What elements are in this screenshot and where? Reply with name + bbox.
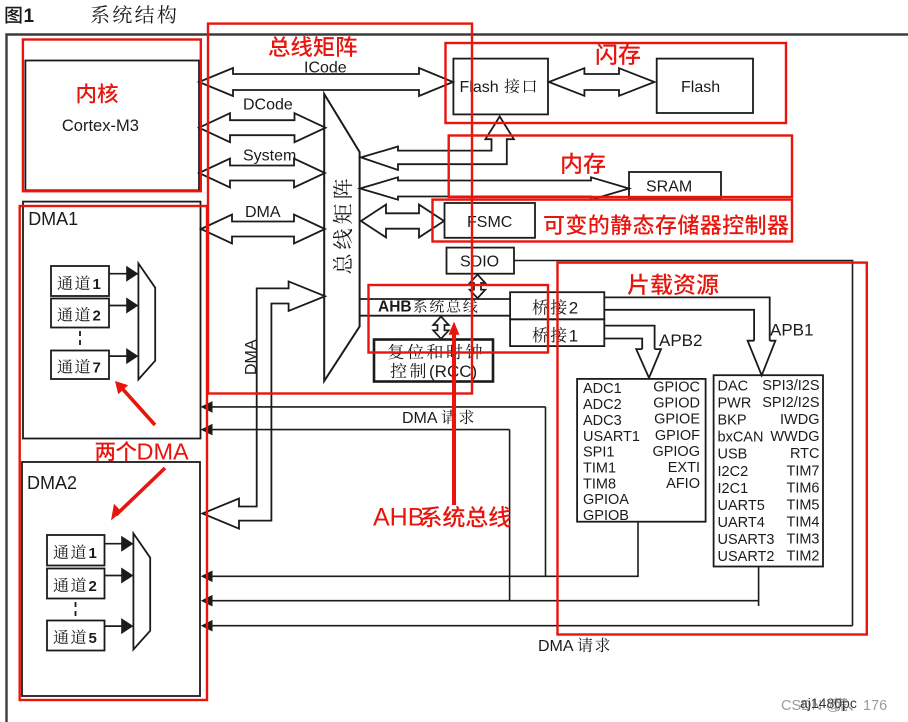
wire 通道2 to mux (DMA2) — [105, 575, 123, 577]
svg-text:TIM4: TIM4 — [786, 515, 819, 531]
svg-text:UART4: UART4 — [718, 515, 765, 531]
box 通道1 (DMA1) — [51, 266, 109, 296]
wire 通道1 to mux (DMA2) — [105, 543, 123, 545]
box APB2 peripherals — [577, 379, 706, 522]
svg-text:I2C1: I2C1 — [718, 481, 749, 497]
svg-text:TIM7: TIM7 — [786, 463, 819, 479]
svg-text:SPI1: SPI1 — [583, 445, 614, 461]
label 总线矩阵 (red) — [269, 36, 290, 57]
label 可变的静态存储器控制器 (red) — [544, 216, 564, 235]
svg-text:DAC: DAC — [718, 379, 749, 395]
AHB system bus bar — [360, 298, 510, 300]
connector matrix-Flash接口 (up arrow + left arrow) — [361, 117, 514, 171]
wire 通道7 to mux — [109, 355, 127, 357]
red arrow to DMA2 channels — [116, 468, 165, 515]
svg-text:TIM6: TIM6 — [786, 480, 819, 496]
svg-text:USART1: USART1 — [583, 429, 640, 445]
title 图1 — [6, 7, 22, 24]
annotation box 总线矩阵 (red) — [208, 24, 472, 394]
label 内核 (red) — [78, 83, 96, 103]
box DMA1 — [23, 202, 201, 439]
box SRAM — [629, 172, 721, 199]
svg-text:System: System — [243, 148, 296, 165]
red arrow AHB label to bus bar — [452, 331, 456, 505]
svg-text:EXTI: EXTI — [668, 460, 700, 476]
svg-text:TIM3: TIM3 — [786, 532, 819, 548]
svg-text:I2C2: I2C2 — [718, 464, 749, 480]
svg-text:GPIOB: GPIOB — [583, 508, 629, 524]
box 通道7 (DMA1) — [51, 351, 109, 380]
svg-text:DMA: DMA — [402, 410, 438, 427]
annotation box 片载资源 (red) — [558, 263, 867, 635]
svg-text:GPIOE: GPIOE — [654, 412, 700, 428]
svg-text:TIM8: TIM8 — [583, 476, 616, 492]
svg-text:5: 5 — [89, 630, 97, 647]
svg-text:TIM1: TIM1 — [583, 460, 616, 476]
label 内存 (red) — [562, 153, 581, 174]
box FSMC — [445, 203, 536, 238]
box 通道2 (DMA1) — [51, 299, 109, 328]
label 两个DMA (red) — [96, 443, 115, 462]
svg-text:APB2: APB2 — [659, 331, 702, 350]
svg-text:ADC2: ADC2 — [583, 397, 622, 413]
box DMA2 — [22, 462, 200, 696]
box APB1 peripherals — [714, 375, 823, 566]
svg-text:GPIOD: GPIOD — [653, 396, 700, 412]
bus arrow System — [199, 159, 325, 188]
svg-text:1: 1 — [24, 6, 35, 27]
svg-text:IWDG: IWDG — [780, 412, 819, 428]
svg-text:DCode: DCode — [243, 97, 293, 114]
svg-text:GPIOA: GPIOA — [583, 492, 629, 508]
bus arrow DCode — [199, 113, 326, 142]
bus arrow matrix-SRAM — [360, 177, 629, 199]
wire DMA request to DMA2 from SDIO — [211, 625, 853, 627]
svg-text:SRAM: SRAM — [646, 179, 692, 196]
bus arrow DMA — [201, 215, 325, 244]
dashed ellipsis between 通道2 and 通道5 — [75, 602, 77, 618]
wire SDIO right and down — [514, 261, 853, 626]
box 通道1 (DMA2) — [47, 535, 105, 566]
svg-text:GPIOG: GPIOG — [652, 444, 700, 460]
small double arrow SDIO-AHB bus — [470, 275, 486, 299]
wire 桥接1 to APB2 funnel — [604, 326, 654, 350]
svg-text:BKP: BKP — [718, 413, 747, 429]
box 桥接2 — [510, 292, 604, 319]
wire DMA request to DMA2 ch2 — [211, 600, 759, 602]
svg-text:ADC1: ADC1 — [583, 381, 622, 397]
label 闪存 (red) — [597, 44, 617, 65]
wire 通道5 to mux (DMA2) — [105, 625, 123, 627]
svg-text:aj1480pc: aj1480pc — [800, 695, 857, 711]
annotation box 内存 (red) — [449, 136, 792, 198]
red arrow to 通道7 — [120, 386, 155, 425]
svg-text:DMA: DMA — [538, 638, 574, 655]
svg-text:7: 7 — [93, 360, 101, 377]
annotation box 可变的静态存储器控制器 (red) — [433, 200, 793, 242]
svg-text:1: 1 — [93, 276, 101, 293]
label 片载资源 (red) — [628, 274, 648, 295]
svg-text:USART3: USART3 — [718, 532, 775, 548]
wire 桥接2 to APB1 funnel — [604, 297, 769, 340]
box Flash — [657, 59, 753, 113]
box Cortex-M3 core — [25, 61, 199, 191]
annotation box 内核 (red) — [23, 40, 201, 192]
svg-text:GPIOC: GPIOC — [653, 380, 700, 396]
svg-text:AFIO: AFIO — [666, 476, 700, 492]
svg-text:TIM5: TIM5 — [786, 497, 819, 513]
svg-text:ADC3: ADC3 — [583, 413, 622, 429]
svg-text:APB1: APB1 — [770, 321, 813, 340]
box 通道5 (DMA2) — [47, 621, 105, 651]
svg-text:DMA: DMA — [137, 438, 190, 464]
box Flash 接口 — [453, 59, 548, 115]
svg-text:2: 2 — [93, 308, 101, 325]
svg-text:2: 2 — [569, 299, 578, 318]
svg-text:UART5: UART5 — [718, 498, 765, 514]
box 复位和时钟控制(RCC) — [374, 340, 493, 382]
elbow pipe arrow matrix-DMA2 — [203, 281, 326, 528]
wire 通道1 to mux — [109, 273, 127, 275]
svg-text:bxCAN: bxCAN — [718, 430, 764, 446]
box 桥接1 — [510, 319, 604, 346]
svg-text:USB: USB — [718, 447, 748, 463]
mux trapezoid DMA1 — [138, 263, 155, 379]
small double arrow AHB-RCC — [433, 317, 449, 339]
svg-text:Cortex-M3: Cortex-M3 — [62, 117, 139, 135]
wire 通道2 to mux — [109, 305, 127, 307]
annotation box AHB (red) — [369, 285, 549, 353]
svg-text:DMA: DMA — [245, 204, 281, 221]
wire DMA request 1 (APB2 periph down) — [637, 522, 639, 577]
svg-text:SPI3/I2S: SPI3/I2S — [762, 378, 819, 394]
svg-text:SDIO: SDIO — [460, 254, 499, 271]
wire DMA request 2 (APB1 periph down) — [758, 567, 760, 607]
box SDIO — [447, 248, 515, 274]
annotation box around DMA1+DMA2 (red) — [20, 206, 207, 700]
svg-text:WWDG: WWDG — [770, 429, 819, 445]
dashed ellipsis between 通道2 and 通道7 — [79, 331, 81, 348]
bus arrow matrix-FSMC — [361, 205, 444, 238]
svg-text:1: 1 — [569, 326, 578, 345]
svg-text:GPIOF: GPIOF — [655, 428, 700, 444]
svg-text:PWR: PWR — [718, 396, 752, 412]
svg-text:2: 2 — [89, 578, 97, 595]
wire DMA request to DMA2 ch1 — [211, 575, 638, 577]
bus arrow Flash接口-Flash — [549, 68, 655, 96]
bus arrow ICode — [199, 68, 453, 96]
mux trapezoid DMA2 — [133, 533, 150, 649]
title 系统结构 — [91, 5, 108, 23]
svg-text:1: 1 — [89, 545, 97, 562]
svg-text:AHB: AHB — [378, 299, 412, 316]
box 通道2 (DMA2) — [47, 569, 105, 599]
bus matrix trapezoid 总线矩阵 — [324, 94, 359, 381]
svg-text:USART2: USART2 — [718, 549, 775, 565]
svg-text:DMA1: DMA1 — [28, 209, 78, 229]
svg-text:Flash: Flash — [681, 79, 720, 96]
rotated label DMA on pipe — [243, 339, 260, 375]
APB2 funnel arrow — [636, 349, 661, 378]
svg-text:FSMC: FSMC — [467, 214, 512, 231]
svg-text:DMA: DMA — [243, 339, 260, 375]
svg-text:SPI2/I2S: SPI2/I2S — [762, 395, 819, 411]
svg-text:176: 176 — [863, 698, 887, 714]
svg-text:RTC: RTC — [790, 446, 820, 462]
svg-text:DMA2: DMA2 — [27, 473, 77, 493]
svg-text:AHB: AHB — [373, 504, 424, 532]
svg-text:Flash: Flash — [460, 79, 499, 96]
svg-text:TIM2: TIM2 — [786, 549, 819, 565]
vertical label 总线矩阵 inside matrix — [333, 255, 352, 274]
APB1 funnel arrow — [748, 341, 776, 376]
annotation box 闪存 (red) — [446, 43, 787, 123]
